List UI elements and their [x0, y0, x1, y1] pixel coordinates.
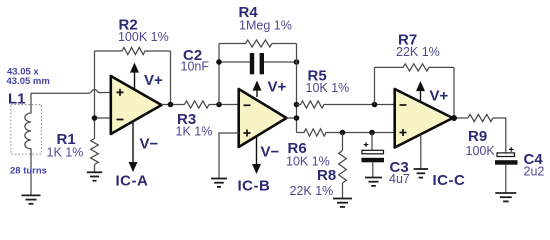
power arrow V+ (IC-A) [134, 71, 136, 89]
capacitor C2 (10nF, parallel feedback) [219, 53, 297, 74]
svg-text:1K 1%: 1K 1% [47, 146, 84, 160]
power arrow V+ (IC-C) [420, 90, 422, 102]
resistor R7 (22K 1%, feedback) [375, 64, 455, 71]
svg-text:R8: R8 [317, 167, 336, 184]
resistor R6 (10K 1%) [297, 129, 395, 136]
op-amp IC-C [395, 89, 453, 148]
junction: C2/R4 network tap [216, 102, 222, 108]
wire: IC-C V- pin to ground [420, 135, 422, 170]
ground (C3) [365, 177, 382, 179]
svg-text:2u2: 2u2 [524, 165, 545, 179]
svg-text:100K: 100K [466, 144, 496, 158]
resistor R3 (1K 1%) [185, 101, 210, 108]
wire: IC-A output to IC-B inverting input [162, 104, 185, 106]
svg-text:V−: V− [261, 144, 280, 161]
wire: feedback network left vertical [218, 44, 220, 105]
wire: IC-B non-inverting input to ground [219, 133, 239, 179]
junction: C2 right [294, 59, 300, 65]
junction: R8 tap [340, 130, 346, 136]
wire: IC-C output to R9 [453, 117, 468, 119]
resistor R1 (1K 1%, vertical) [91, 139, 99, 165]
op-amp IC-B [239, 89, 287, 147]
svg-text:IC-B: IC-B [238, 178, 271, 195]
wire: R9 to C4 [493, 118, 506, 153]
wire: R7 feedback right vertical [453, 67, 455, 118]
svg-text:V+: V+ [144, 72, 163, 89]
capacitor C4 (2u2, electrolytic to ground) [495, 147, 518, 193]
op-amp IC-A [111, 76, 162, 134]
junction: bus to R5 [294, 102, 300, 108]
svg-text:43.05 mm: 43.05 mm [7, 76, 50, 87]
power arrow V- (IC-A) [132, 122, 134, 164]
ground (C4) [495, 192, 516, 194]
wire: R2 feedback left vertical [94, 51, 96, 118]
svg-text:22K 1%: 22K 1% [290, 184, 334, 198]
junction: IC-C output / R7 feedback [451, 115, 457, 121]
junction: R7 feedback tap [372, 102, 378, 108]
ground (R8) [333, 198, 352, 200]
resistor R2 (100K 1%, feedback) [95, 47, 171, 54]
svg-text:100K 1%: 100K 1% [118, 30, 169, 44]
junction: R2 feedback on output [168, 102, 174, 108]
svg-text:10K 1%: 10K 1% [306, 81, 350, 95]
svg-text:22K 1%: 22K 1% [396, 45, 440, 59]
resistor R4 (1Meg 1%, feedback) [219, 40, 297, 47]
svg-text:IC-A: IC-A [116, 173, 149, 190]
resistor R9 (100K) [468, 114, 493, 121]
junction: C3 tap [369, 130, 375, 136]
junction: C2 left [216, 59, 222, 65]
svg-text:R9: R9 [468, 128, 487, 145]
svg-text:1Meg 1%: 1Meg 1% [239, 19, 292, 33]
svg-text:28 turns: 28 turns [10, 166, 47, 177]
wire: inverting input to IC-A [95, 117, 111, 119]
junction: R1/R2/IC-A inverting input [92, 115, 98, 121]
svg-text:IC-C: IC-C [433, 172, 466, 189]
wire: feedback network right vertical / IC-B output bus [296, 44, 298, 133]
wire: R3 to IC-B [209, 104, 239, 106]
wire: L1 top to IC-A non-inverting input (with crossover hop) [31, 90, 111, 94]
svg-text:1K 1%: 1K 1% [176, 125, 213, 139]
svg-text:10nF: 10nF [181, 60, 210, 74]
ground (IC-B non-inverting input) [211, 178, 227, 180]
resistor R8 (22K 1%, to ground) [342, 133, 344, 151]
junction: IC-B output [294, 115, 300, 121]
capacitor C3 (4u7, electrolytic to ground) [362, 133, 385, 178]
inductor L1 (coil, dashed outline box) [11, 93, 42, 195]
power arrow V+ (IC-B) [256, 90, 258, 98]
power arrow V- (IC-B) [256, 137, 258, 166]
wire: inverting-input node down to R1 [94, 118, 96, 139]
svg-text:V+: V+ [430, 88, 449, 105]
wire: R2 feedback right vertical to output [170, 51, 172, 105]
ground (IC-C V-) [414, 168, 429, 170]
svg-text:V+: V+ [268, 79, 287, 96]
svg-text:4u7: 4u7 [389, 172, 410, 186]
wire: IC-B output stub [287, 117, 297, 119]
ground (L1) [22, 194, 41, 196]
wire: R7 feedback left vertical [374, 67, 376, 104]
svg-text:V−: V− [140, 136, 159, 153]
ground (R1) [87, 171, 102, 173]
svg-text:L1: L1 [8, 91, 26, 108]
resistor R5 (10K 1%) [297, 101, 395, 108]
